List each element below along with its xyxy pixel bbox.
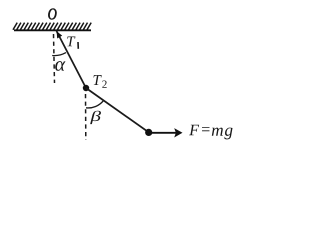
- force arrow F (shaft): [151, 132, 176, 134]
- wire string T2 (knot to weight point): [86, 88, 149, 133]
- wire string T1 (O to knot): [57, 31, 87, 88]
- force arrow F (head): [174, 128, 182, 137]
- label O: [48, 9, 56, 20]
- label mg: [212, 128, 233, 140]
- label T2: [93, 75, 101, 85]
- node knot: [83, 85, 89, 91]
- label F = mg: [189, 125, 199, 135]
- label T1: [67, 36, 75, 46]
- label T2 subscript 2: [102, 81, 106, 88]
- arrowhead of tension T1 at ceiling: [57, 31, 63, 38]
- dashed vertical reference line below knot: [85, 94, 87, 140]
- label T1 subscript 1: [77, 42, 79, 49]
- label alpha: [55, 61, 65, 71]
- ceiling hatching: [13, 23, 91, 30]
- label beta: [90, 111, 101, 124]
- label equals sign: [202, 127, 209, 131]
- ceiling line: [14, 29, 91, 31]
- dashed vertical reference line below O: [54, 34, 55, 83]
- angle arc alpha: [52, 53, 66, 56]
- node weight attachment point: [145, 129, 152, 136]
- angle arc beta: [86, 101, 103, 108]
